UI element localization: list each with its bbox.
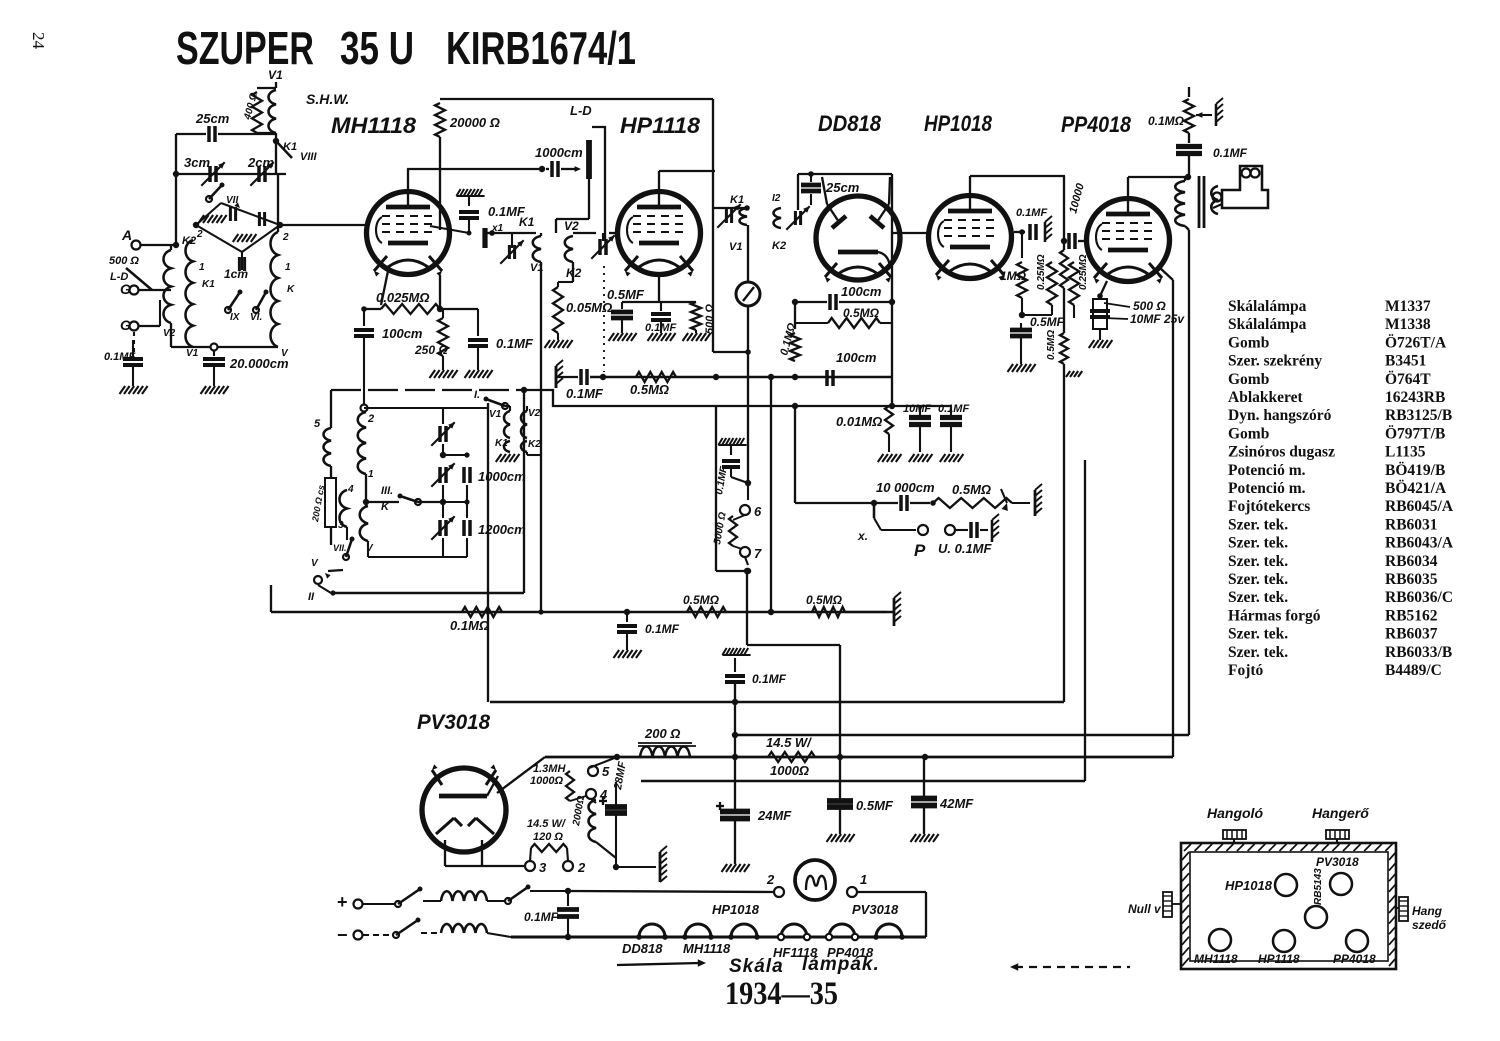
svg-text:PV3018: PV3018 [852, 902, 899, 917]
svg-text:16243RB: 16243RB [1385, 389, 1445, 406]
svg-text:2: 2 [367, 413, 374, 425]
svg-text:0.01MΩ: 0.01MΩ [836, 414, 882, 429]
svg-text:VII.: VII. [333, 543, 347, 553]
svg-text:VI.: VI. [250, 312, 262, 323]
svg-text:0.025MΩ: 0.025MΩ [376, 290, 430, 305]
svg-text:1000cm: 1000cm [478, 469, 526, 484]
svg-text:Hangoló: Hangoló [1207, 805, 1263, 821]
svg-text:V1: V1 [489, 409, 502, 420]
svg-text:BÖ419/B: BÖ419/B [1385, 462, 1445, 479]
svg-text:L1135: L1135 [1385, 444, 1426, 461]
svg-text:1: 1 [285, 262, 291, 273]
svg-text:x.: x. [857, 529, 868, 543]
svg-text:szedő: szedő [1412, 918, 1447, 932]
svg-text:P: P [914, 541, 926, 560]
svg-text:S.H.W.: S.H.W. [306, 91, 349, 107]
svg-text:0.5MF: 0.5MF [607, 287, 645, 302]
svg-text:K2: K2 [528, 439, 541, 450]
svg-text:Szer. tek.: Szer. tek. [1228, 626, 1288, 643]
svg-text:Hangerő: Hangerő [1312, 805, 1369, 821]
svg-text:RB6043/A: RB6043/A [1385, 535, 1454, 552]
svg-text:M1338: M1338 [1385, 316, 1431, 333]
svg-text:0.5MF: 0.5MF [856, 798, 894, 813]
svg-text:A: A [121, 227, 132, 243]
svg-text:3: 3 [539, 860, 547, 875]
svg-text:V1: V1 [268, 68, 283, 82]
svg-text:K1: K1 [730, 194, 744, 206]
svg-text:RB3125/B: RB3125/B [1385, 407, 1452, 424]
svg-text:U. 0.1MF: U. 0.1MF [938, 541, 993, 556]
svg-text:10 000cm: 10 000cm [876, 480, 935, 495]
svg-text:−: − [337, 925, 348, 945]
svg-text:Szer. tek.: Szer. tek. [1228, 571, 1288, 588]
svg-text:K1: K1 [202, 279, 215, 290]
svg-text:L-D: L-D [570, 103, 592, 118]
svg-text:10MF 25v: 10MF 25v [1130, 312, 1185, 326]
svg-text:1: 1 [199, 262, 205, 273]
svg-text:5: 5 [314, 418, 321, 430]
svg-text:14.5 W/: 14.5 W/ [527, 818, 567, 830]
svg-text:0.1MF: 0.1MF [752, 672, 787, 686]
svg-text:RB6034: RB6034 [1385, 553, 1438, 570]
svg-text:1: 1 [368, 469, 374, 480]
svg-text:SZUPER: SZUPER [176, 22, 314, 74]
svg-text:5: 5 [602, 764, 610, 779]
svg-text:6: 6 [754, 504, 762, 519]
svg-text:RB6045/A: RB6045/A [1385, 498, 1454, 515]
svg-text:Szer. tek.: Szer. tek. [1228, 589, 1288, 606]
svg-text:HP1018: HP1018 [924, 111, 993, 136]
svg-text:0.5MF: 0.5MF [1030, 315, 1065, 329]
svg-text:2: 2 [577, 860, 586, 875]
svg-text:2cm: 2cm [247, 155, 274, 170]
svg-text:DD818: DD818 [622, 941, 663, 956]
svg-text:Fojtótekercs: Fojtótekercs [1228, 498, 1310, 515]
svg-text:PP4018: PP4018 [1333, 952, 1376, 966]
svg-text:Potenció m.: Potenció m. [1228, 480, 1306, 497]
svg-text:1934—35: 1934—35 [725, 976, 838, 1012]
svg-text:Hármas forgó: Hármas forgó [1228, 607, 1321, 624]
svg-text:HP1018: HP1018 [1225, 878, 1273, 893]
svg-text:24: 24 [29, 32, 48, 50]
svg-text:120 Ω: 120 Ω [533, 831, 563, 843]
svg-text:Skálalámpa: Skálalámpa [1228, 298, 1307, 315]
svg-text:DD818: DD818 [818, 111, 882, 136]
svg-text:0.1MF: 0.1MF [524, 910, 559, 924]
svg-text:Skálalámpa: Skálalámpa [1228, 316, 1307, 333]
svg-text:42MF: 42MF [939, 796, 974, 811]
svg-text:PP4018: PP4018 [1061, 112, 1132, 137]
svg-text:Gomb: Gomb [1228, 334, 1269, 351]
svg-text:7: 7 [754, 546, 762, 561]
svg-text:0.1MF: 0.1MF [496, 336, 534, 351]
svg-text:RB6036/C: RB6036/C [1385, 589, 1453, 606]
svg-text:BÖ421/A: BÖ421/A [1385, 480, 1447, 497]
svg-text:250 Ω: 250 Ω [414, 343, 448, 357]
svg-text:Gomb: Gomb [1228, 425, 1269, 442]
svg-text:HP1018: HP1018 [712, 902, 760, 917]
svg-text:I.: I. [474, 389, 480, 401]
svg-text:Ö764T: Ö764T [1385, 371, 1431, 388]
svg-text:HP1118: HP1118 [620, 113, 701, 138]
svg-text:K1: K1 [519, 215, 535, 229]
svg-text:24MF: 24MF [757, 808, 792, 823]
svg-text:0.5MΩ: 0.5MΩ [843, 306, 880, 320]
svg-text:1cm: 1cm [224, 267, 248, 281]
svg-text:RB5162: RB5162 [1385, 607, 1438, 624]
svg-text:B4489/C: B4489/C [1385, 662, 1442, 679]
svg-text:1000cm: 1000cm [535, 145, 583, 160]
svg-text:lámpák.: lámpák. [802, 954, 880, 975]
svg-text:2: 2 [766, 872, 775, 887]
svg-text:K2: K2 [772, 240, 786, 252]
svg-text:I2: I2 [772, 193, 781, 204]
svg-text:V2: V2 [163, 328, 176, 339]
svg-text:Potenció m.: Potenció m. [1228, 462, 1306, 479]
svg-text:1200cm: 1200cm [478, 522, 526, 537]
svg-text:0.5MΩ: 0.5MΩ [806, 593, 843, 607]
svg-text:0.1MΩ: 0.1MΩ [1148, 114, 1185, 128]
svg-text:K: K [287, 284, 295, 295]
svg-text:Szer. tek.: Szer. tek. [1228, 553, 1288, 570]
svg-text:0.1MF: 0.1MF [1213, 146, 1248, 160]
svg-text:100cm: 100cm [382, 326, 423, 341]
svg-text:B3451: B3451 [1385, 353, 1426, 370]
svg-text:0.25MΩ: 0.25MΩ [1078, 254, 1089, 290]
svg-text:Szer. szekrény: Szer. szekrény [1228, 353, 1322, 370]
svg-text:200 Ω: 200 Ω [644, 726, 680, 741]
svg-text:IX: IX [230, 312, 241, 323]
svg-text:Null v: Null v [1128, 902, 1162, 916]
svg-text:Szer. tek.: Szer. tek. [1228, 535, 1288, 552]
svg-text:M1337: M1337 [1385, 298, 1431, 315]
svg-text:RB5143: RB5143 [1313, 868, 1324, 905]
svg-text:Fojtó: Fojtó [1228, 662, 1264, 679]
svg-text:1MΩ: 1MΩ [1000, 269, 1027, 283]
svg-text:1000Ω: 1000Ω [530, 775, 563, 787]
svg-text:III.: III. [381, 485, 393, 497]
svg-text:V1: V1 [186, 348, 199, 359]
svg-text:2: 2 [196, 229, 203, 240]
svg-text:Ö797T/B: Ö797T/B [1385, 425, 1445, 442]
svg-text:RB6035: RB6035 [1385, 571, 1438, 588]
svg-text:0.1MF: 0.1MF [938, 403, 969, 415]
svg-text:500 Ω: 500 Ω [704, 304, 716, 334]
svg-text:G: G [120, 281, 131, 297]
svg-text:0.5MΩ: 0.5MΩ [683, 593, 720, 607]
svg-text:V2: V2 [564, 219, 579, 233]
svg-text:V1: V1 [729, 241, 742, 253]
svg-text:Szer. tek.: Szer. tek. [1228, 644, 1288, 661]
svg-text:Zsinóros dugasz: Zsinóros dugasz [1228, 444, 1335, 461]
svg-text:25cm: 25cm [825, 180, 860, 195]
svg-text:Ablakkeret: Ablakkeret [1228, 389, 1303, 406]
svg-text:500 Ω: 500 Ω [1133, 299, 1166, 313]
svg-text:Szer. tek.: Szer. tek. [1228, 516, 1288, 533]
svg-text:Hang: Hang [1412, 904, 1443, 918]
svg-text:KIRB1674/1: KIRB1674/1 [446, 22, 636, 74]
svg-text:V2: V2 [528, 408, 541, 419]
svg-text:Skála: Skála [729, 956, 784, 977]
svg-text:HP1118: HP1118 [1258, 952, 1300, 966]
svg-text:1: 1 [860, 872, 867, 887]
svg-text:II: II [308, 591, 315, 603]
svg-text:20000 Ω: 20000 Ω [449, 115, 500, 130]
svg-text:VIII: VIII [300, 151, 317, 163]
svg-text:0.1MF: 0.1MF [566, 386, 604, 401]
svg-text:0.1MF: 0.1MF [1016, 207, 1047, 219]
svg-text:10MF: 10MF [903, 403, 931, 415]
svg-text:0.25MΩ: 0.25MΩ [1036, 254, 1047, 290]
svg-text:0.5MΩ: 0.5MΩ [630, 382, 669, 397]
svg-text:500 Ω: 500 Ω [109, 255, 139, 267]
svg-text:+: + [337, 892, 348, 912]
svg-text:14.5 W/: 14.5 W/ [766, 735, 812, 750]
svg-text:MH1118: MH1118 [331, 113, 417, 138]
svg-text:RB6033/B: RB6033/B [1385, 644, 1452, 661]
svg-text:100cm: 100cm [836, 350, 877, 365]
svg-text:RB6037: RB6037 [1385, 626, 1438, 643]
svg-text:Ö726T/A: Ö726T/A [1385, 334, 1447, 351]
svg-text:MH1118: MH1118 [683, 941, 731, 956]
svg-text:3cm: 3cm [184, 155, 210, 170]
svg-text:Dyn. hangszóró: Dyn. hangszóró [1228, 407, 1332, 424]
svg-text:3: 3 [338, 520, 344, 531]
svg-text:RB6031: RB6031 [1385, 516, 1438, 533]
svg-text:0.5MΩ: 0.5MΩ [952, 482, 991, 497]
svg-text:0.1MF: 0.1MF [645, 622, 680, 636]
svg-text:100cm: 100cm [841, 284, 882, 299]
svg-text:0.1MΩ: 0.1MΩ [450, 618, 489, 633]
svg-text:PV3018: PV3018 [1316, 855, 1359, 869]
svg-text:20.000cm: 20.000cm [229, 356, 289, 371]
svg-text:35 U: 35 U [340, 22, 414, 74]
svg-text:1000Ω: 1000Ω [770, 763, 809, 778]
svg-text:MH1118: MH1118 [1194, 952, 1238, 966]
svg-text:1.3MH: 1.3MH [533, 763, 566, 775]
svg-text:0.5MΩ: 0.5MΩ [1046, 330, 1057, 360]
svg-text:25cm: 25cm [195, 111, 230, 126]
svg-text:2: 2 [282, 232, 289, 243]
svg-text:0.1MF: 0.1MF [104, 351, 135, 363]
svg-text:4: 4 [347, 484, 354, 495]
svg-text:Gomb: Gomb [1228, 371, 1269, 388]
svg-text:PV3018: PV3018 [417, 711, 490, 734]
svg-text:G: G [120, 317, 131, 333]
svg-text:0.05MΩ: 0.05MΩ [566, 300, 612, 315]
